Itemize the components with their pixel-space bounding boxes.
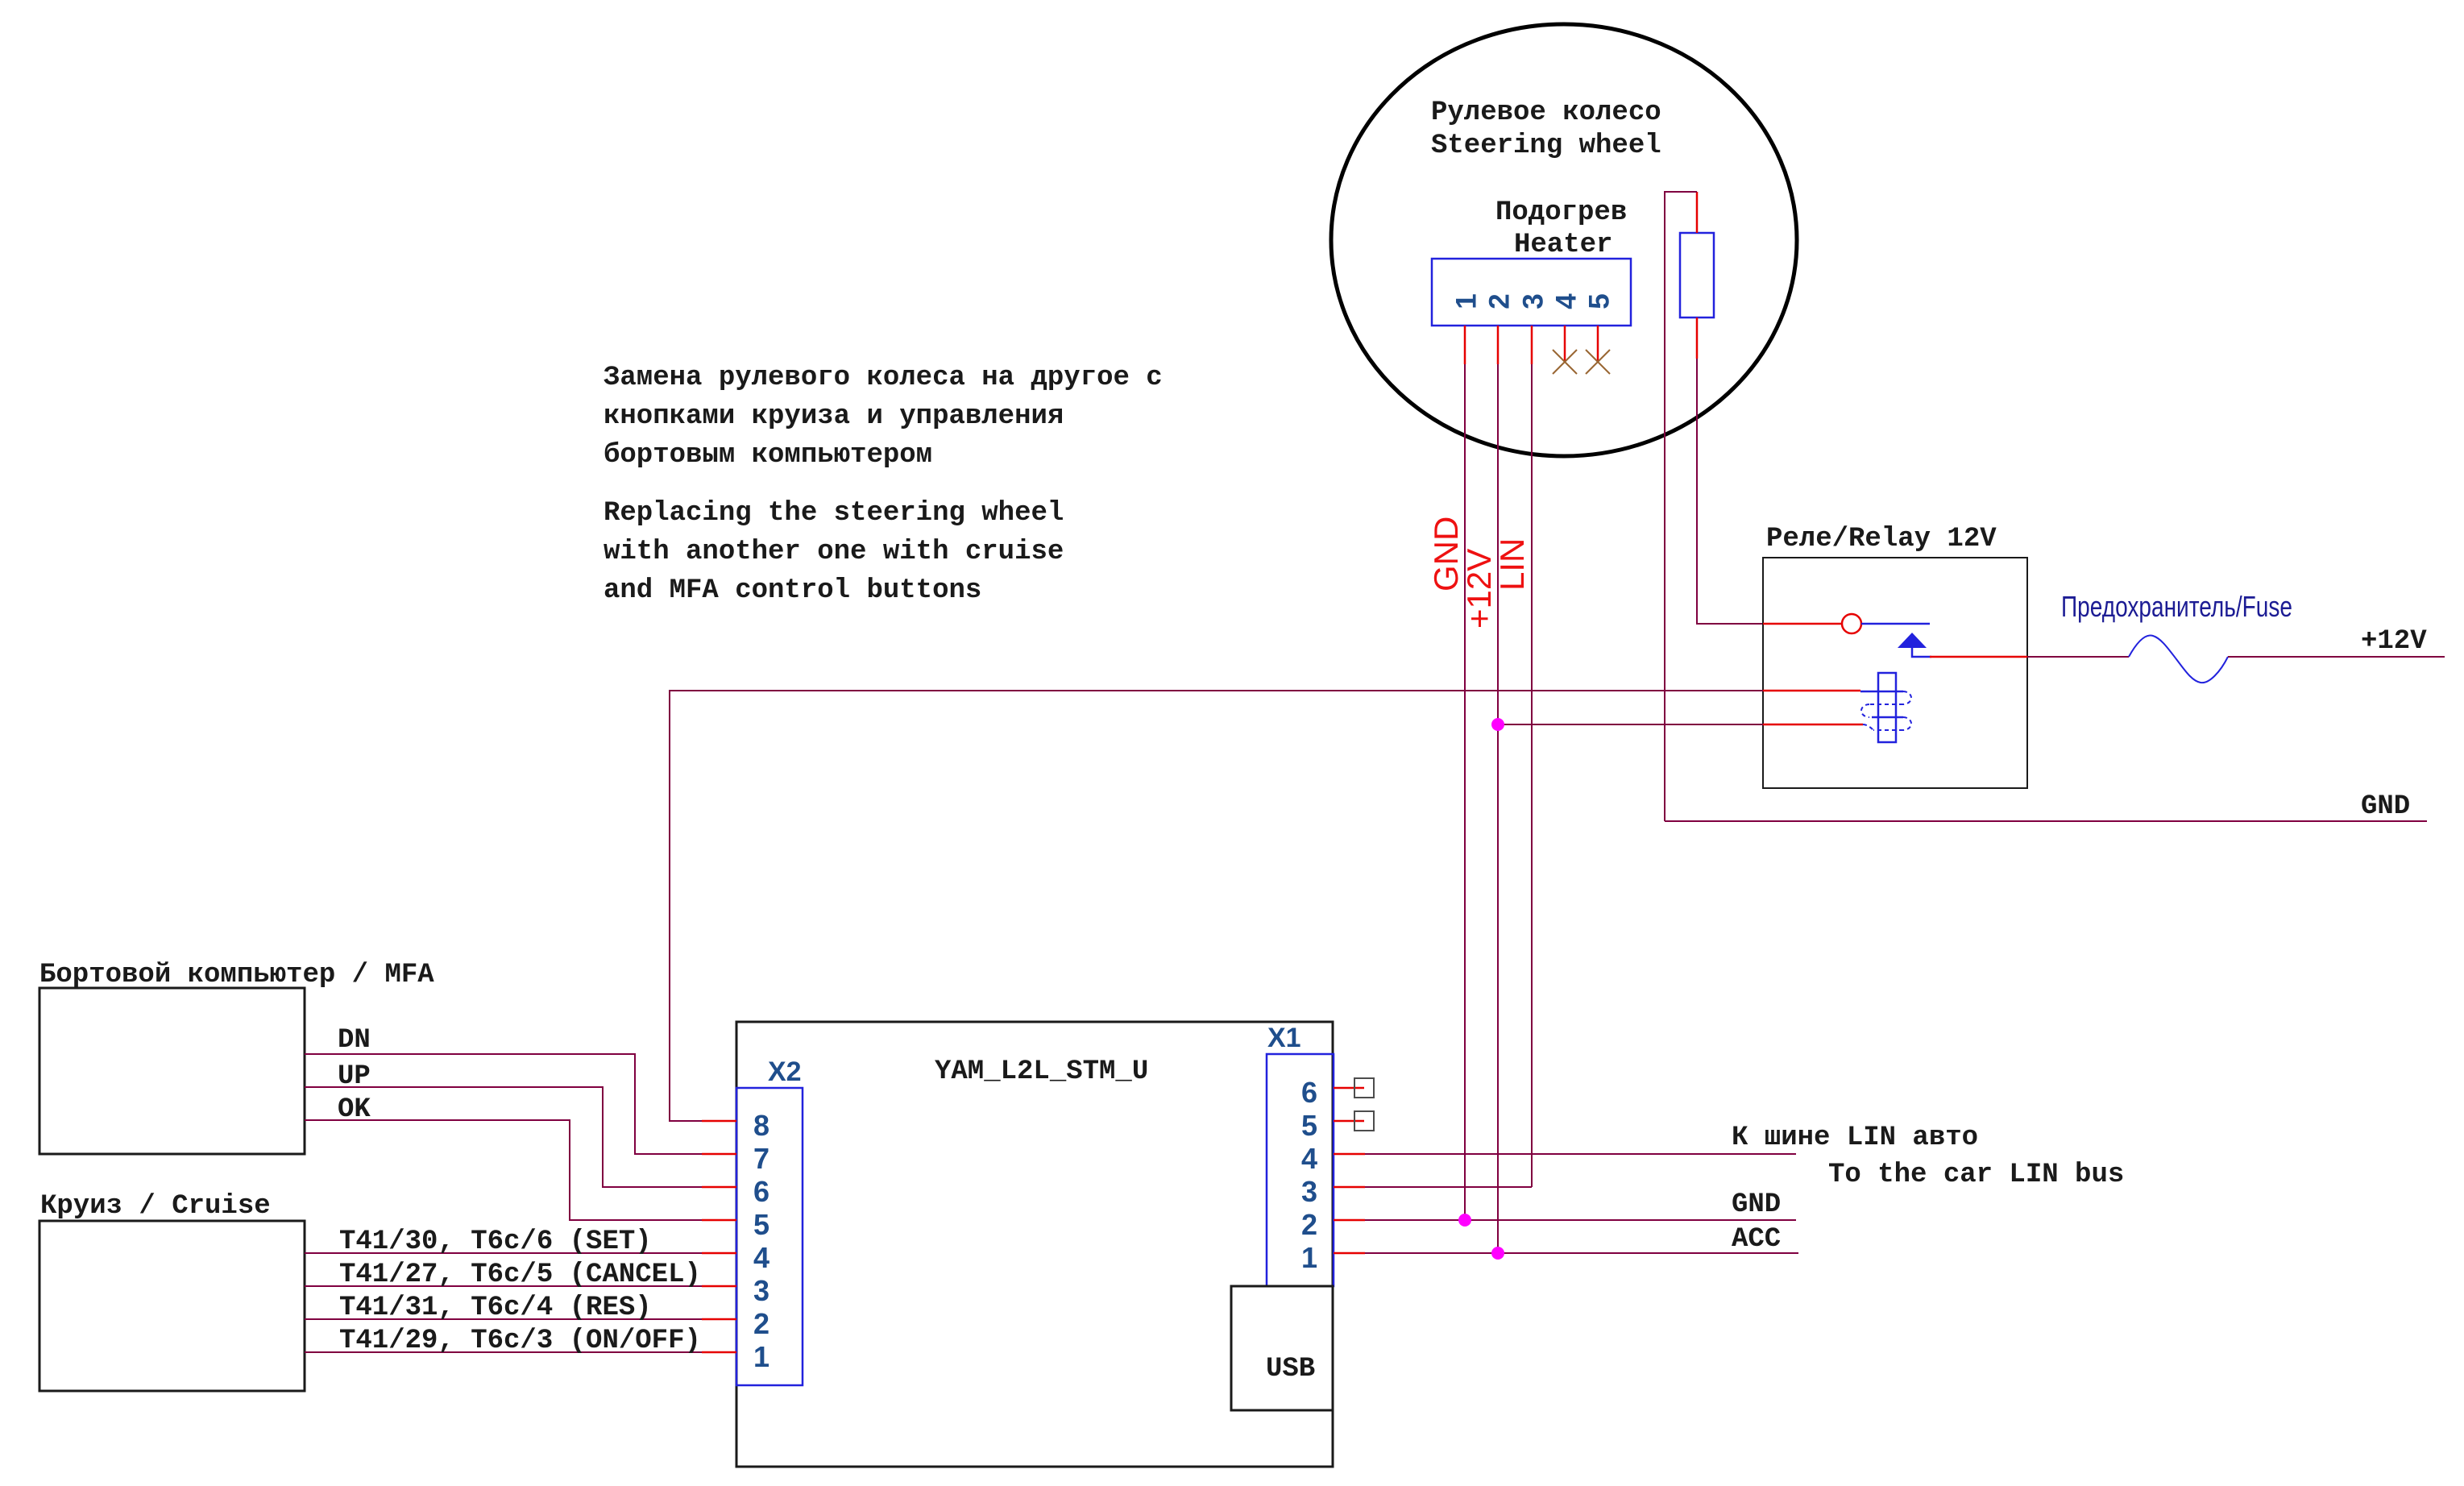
heater pin number 5 — [1584, 293, 1616, 309]
heater pin 5 stub — [1597, 326, 1599, 362]
X2 pin 2 stub — [702, 1318, 736, 1321]
junction dot — [1491, 718, 1504, 731]
heater pin number 3 — [1518, 293, 1549, 309]
relay coil lower stub — [1763, 724, 1863, 726]
svg-text:бортовым компьютером: бортовым компьютером — [604, 440, 932, 471]
relay contact circle — [1842, 614, 1861, 633]
junction dot ACC — [1491, 1247, 1504, 1260]
heater pin 4 stub — [1564, 326, 1566, 362]
X1 pin 6 stub — [1334, 1087, 1364, 1090]
svg-text:3: 3 — [1301, 1175, 1317, 1208]
svg-text:4: 4 — [1551, 293, 1583, 309]
svg-text:Replacing the steering wheel: Replacing the steering wheel — [604, 498, 1064, 529]
heater pin 3 stub — [1531, 326, 1533, 364]
heater pin number 2 — [1484, 293, 1516, 309]
wire DN to X2 pin 7 — [305, 1054, 702, 1154]
svg-text:кнопками круиза и управления: кнопками круиза и управления — [604, 401, 1064, 432]
X1 pin 3 stub — [1334, 1186, 1365, 1189]
wire UP to X2 pin 6 — [305, 1087, 702, 1187]
svg-text:Steering wheel: Steering wheel — [1431, 131, 1661, 161]
svg-text:К шине LIN авто: К шине LIN авто — [1732, 1123, 1978, 1153]
svg-text:5: 5 — [753, 1208, 769, 1241]
heater pin 1 stub — [1464, 326, 1466, 364]
wire: heater pin3 LIN drop — [1531, 364, 1533, 1187]
wire: relay output to fuse — [2027, 656, 2129, 658]
relay coil winding — [1860, 691, 1903, 693]
main unit box — [736, 1022, 1333, 1467]
svg-text:+12V: +12V — [1460, 549, 1498, 629]
relay coil upper stub — [1763, 690, 1860, 692]
X2 pin 4 stub — [702, 1252, 736, 1255]
svg-text:+12V: +12V — [2361, 626, 2427, 657]
resistor bottom stub — [1696, 318, 1699, 359]
svg-text:6: 6 — [753, 1175, 769, 1208]
X2 pin 8 stub — [702, 1120, 736, 1123]
no-connect square pin 6 — [1354, 1078, 1374, 1098]
wire X1 pin 2 GND — [1365, 1219, 1796, 1221]
svg-text:T41/29, T6c/3 (ON/OFF): T41/29, T6c/3 (ON/OFF) — [339, 1326, 701, 1356]
svg-text:Heater: Heater — [1514, 230, 1612, 260]
Cruise box — [39, 1221, 305, 1391]
svg-text:T41/30, T6c/6 (SET): T41/30, T6c/6 (SET) — [339, 1227, 652, 1257]
wire: jog resistor top to GND drop — [1665, 192, 1697, 821]
X1 pin 2 stub — [1334, 1219, 1365, 1222]
heater connector X3 body — [1432, 259, 1631, 326]
wire: heater pin2 +12V drop — [1497, 364, 1499, 1253]
svg-text:Бортовой компьютер / MFA: Бортовой компьютер / MFA — [39, 960, 434, 990]
heater element resistor R — [1680, 233, 1714, 318]
svg-text:To the car LIN bus: To the car LIN bus — [1828, 1160, 2124, 1190]
svg-text:3: 3 — [753, 1274, 769, 1307]
svg-text:2: 2 — [1484, 293, 1516, 309]
wire CANCEL to X2 pin 3 — [305, 1285, 702, 1287]
relay arrow — [1898, 633, 1927, 648]
wire: coil top to X2 pin 8 — [670, 691, 1763, 1121]
relay lever — [1861, 623, 1930, 625]
connector X1 — [1267, 1054, 1334, 1286]
svg-text:GND: GND — [1427, 517, 1465, 591]
relay box — [1763, 558, 2027, 788]
X2 pin 3 stub — [702, 1285, 736, 1288]
heater pin number 4 — [1551, 293, 1583, 309]
svg-text:GND: GND — [2361, 791, 2410, 822]
svg-text:Реле/Relay 12V: Реле/Relay 12V — [1766, 524, 1997, 554]
relay coil core — [1878, 673, 1896, 742]
svg-text:YAM_L2L_STM_U: YAM_L2L_STM_U — [935, 1056, 1148, 1087]
no-connect X on heater pin 5 — [1586, 350, 1610, 374]
svg-text:USB: USB — [1266, 1354, 1315, 1384]
X2 pin 7 stub — [702, 1153, 736, 1156]
wire: coil bottom to +12V drop — [1498, 724, 1763, 725]
X2 pin 1 stub — [702, 1351, 736, 1354]
svg-text:DN: DN — [338, 1025, 371, 1056]
svg-text:4: 4 — [1301, 1142, 1317, 1175]
wire: GND rail — [1665, 820, 2427, 822]
X2 pin 5 stub — [702, 1219, 736, 1222]
svg-text:Рулевое колесо: Рулевое колесо — [1431, 98, 1661, 128]
net label LIN (rotated red) — [1493, 538, 1531, 591]
svg-text:2: 2 — [753, 1307, 769, 1340]
svg-text:ACC: ACC — [1732, 1224, 1781, 1255]
wire: fuse to +12V — [2228, 656, 2445, 658]
svg-text:1: 1 — [1451, 293, 1483, 309]
no-connect X on heater pin 4 — [1553, 350, 1577, 374]
junction dot GND — [1458, 1214, 1471, 1227]
svg-text:T41/27, T6c/5 (CANCEL): T41/27, T6c/5 (CANCEL) — [339, 1260, 701, 1290]
svg-text:GND: GND — [1732, 1189, 1781, 1220]
steering wheel circle — [1331, 24, 1797, 456]
wire X1 pin 3 to LIN drop — [1365, 1186, 1532, 1188]
wire: resistor bottom down to relay contact — [1697, 359, 1763, 624]
svg-text:Замена рулевого колеса на друг: Замена рулевого колеса на другое с — [604, 363, 1163, 393]
svg-text:Подогрев: Подогрев — [1495, 197, 1627, 228]
heater pin 2 stub — [1497, 326, 1500, 364]
svg-text:6: 6 — [1301, 1076, 1317, 1109]
svg-text:1: 1 — [1301, 1241, 1317, 1274]
wire RES to X2 pin 2 — [305, 1318, 702, 1320]
svg-text:X2: X2 — [768, 1056, 802, 1087]
svg-text:LIN: LIN — [1493, 538, 1531, 591]
X1 pin 1 stub — [1334, 1252, 1365, 1255]
svg-text:3: 3 — [1518, 293, 1549, 309]
svg-text:with another one with cruise: with another one with cruise — [604, 537, 1064, 567]
net label GND (rotated red) — [1427, 517, 1465, 591]
svg-text:2: 2 — [1301, 1208, 1317, 1241]
svg-text:8: 8 — [753, 1109, 769, 1142]
MFA box — [39, 988, 305, 1154]
svg-text:Предохранитель/Fuse: Предохранитель/Fuse — [2061, 590, 2292, 623]
USB box — [1231, 1286, 1333, 1410]
wire X1 pin 1 ACC — [1365, 1252, 1798, 1254]
svg-text:and MFA control buttons: and MFA control buttons — [604, 575, 981, 606]
wire ON/OFF to X2 pin 1 — [305, 1351, 702, 1353]
wire: heater pin1 GND drop — [1464, 364, 1466, 1220]
svg-text:4: 4 — [753, 1241, 769, 1274]
resistor top stub — [1696, 192, 1699, 233]
wire OK to X2 pin 5 — [305, 1120, 702, 1220]
X1 pin 4 stub — [1334, 1153, 1365, 1156]
svg-text:Круиз / Cruise: Круиз / Cruise — [40, 1191, 271, 1222]
svg-text:5: 5 — [1301, 1109, 1317, 1142]
relay contact input stub — [1763, 623, 1842, 625]
svg-text:1: 1 — [753, 1340, 769, 1373]
relay output stub — [1930, 656, 2027, 658]
heater pin number 1 — [1451, 293, 1483, 309]
net label +12V (rotated red) — [1460, 549, 1498, 629]
no-connect square pin 5 — [1354, 1111, 1374, 1131]
fuse FU1 — [2129, 636, 2228, 683]
wire SET to X2 pin 4 — [305, 1252, 702, 1254]
X2 pin 6 stub — [702, 1186, 736, 1189]
X1 pin 5 stub — [1334, 1120, 1364, 1123]
svg-text:X1: X1 — [1267, 1023, 1301, 1053]
svg-text:T41/31, T6c/4 (RES): T41/31, T6c/4 (RES) — [339, 1293, 652, 1323]
connector X2 — [736, 1088, 803, 1385]
svg-text:5: 5 — [1584, 293, 1616, 309]
wire X1 pin 4 LIN bus — [1365, 1153, 1796, 1155]
svg-text:7: 7 — [753, 1142, 769, 1175]
